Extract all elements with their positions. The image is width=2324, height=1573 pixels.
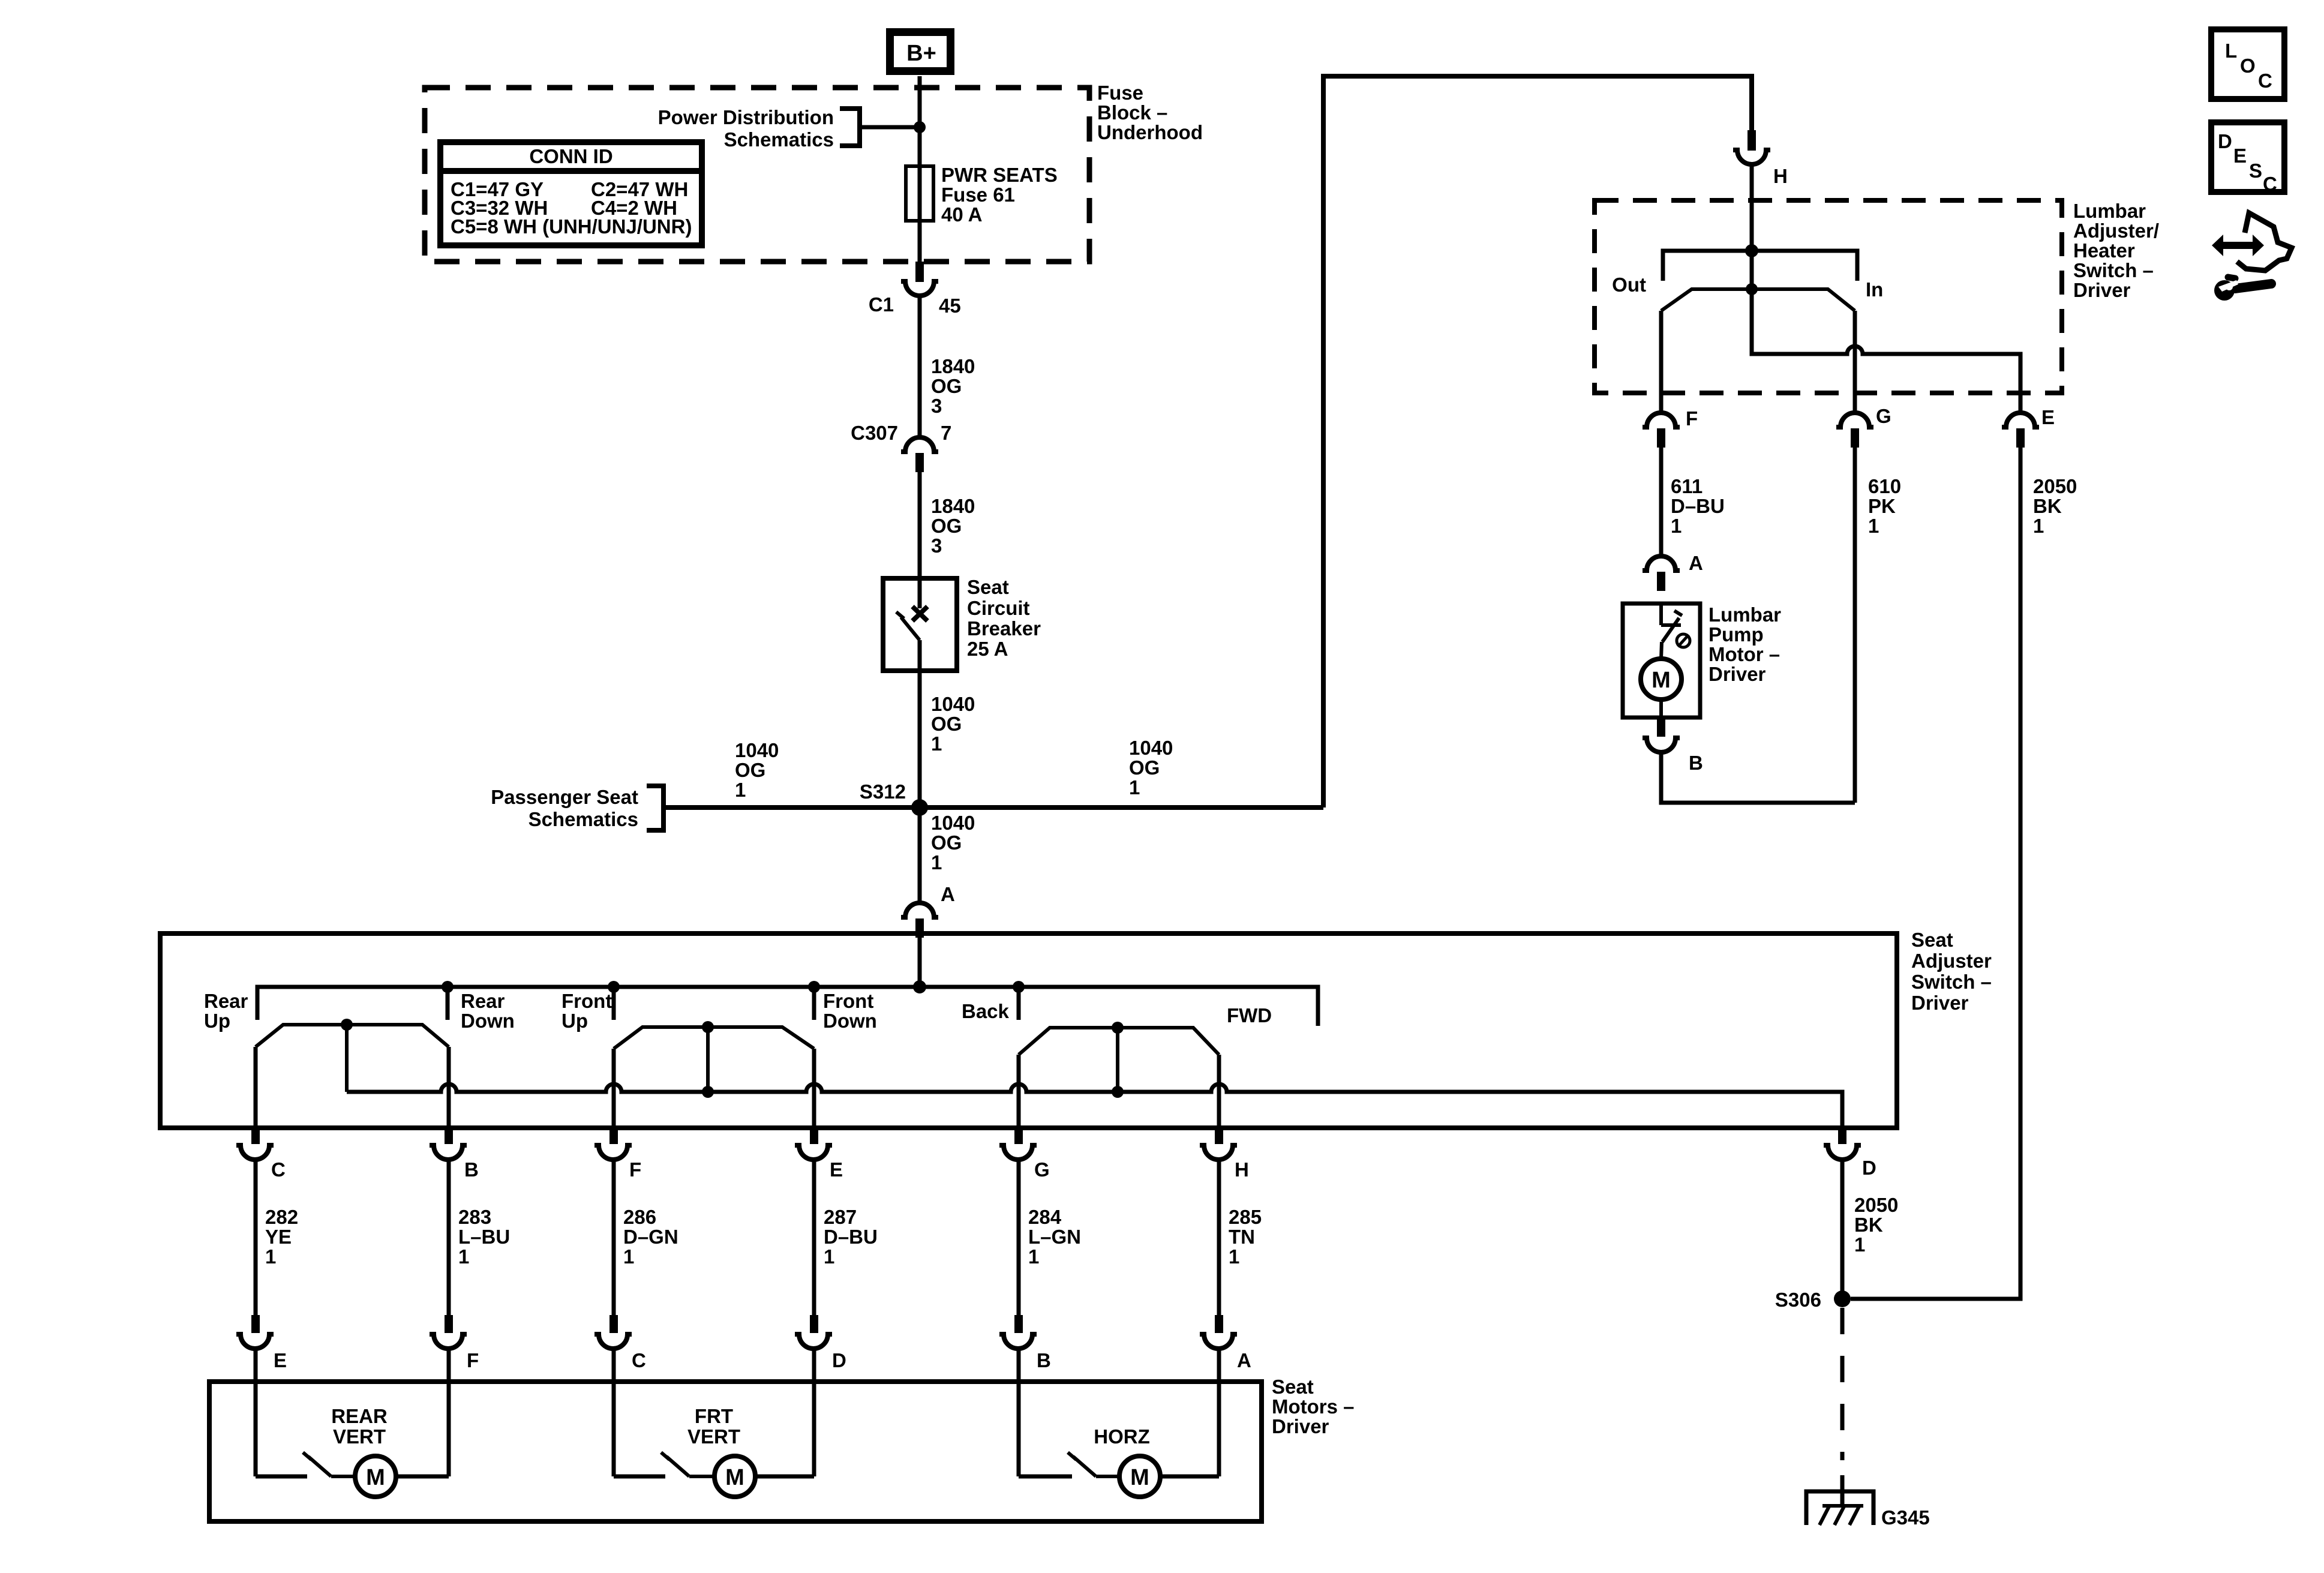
svg-text:Out: Out xyxy=(1612,274,1646,296)
svg-text:L: L xyxy=(2225,40,2237,62)
svg-text:1: 1 xyxy=(1129,776,1140,798)
svg-text:REAR: REAR xyxy=(331,1405,388,1427)
svg-text:TN: TN xyxy=(1229,1226,1255,1248)
svg-text:B: B xyxy=(464,1158,479,1181)
lumbar pump motor internals xyxy=(1641,604,1690,718)
svg-text:OG: OG xyxy=(1129,757,1160,779)
svg-text:282: 282 xyxy=(265,1206,298,1228)
wire into seat motors box xyxy=(812,1349,816,1382)
wire into seat motors box xyxy=(447,1349,451,1382)
wire label 284 L–GN 1 xyxy=(1028,1206,1081,1268)
wire 284 L–GN xyxy=(1017,1160,1021,1315)
svg-text:M: M xyxy=(1652,668,1671,693)
svg-text:C307: C307 xyxy=(851,422,898,444)
wire label 1840 OG 3 xyxy=(931,495,975,557)
fixed contact Front Up xyxy=(608,981,620,1020)
svg-text:Underhood: Underhood xyxy=(1097,121,1203,143)
label Fuse Block - Underhood xyxy=(1097,82,1203,143)
fixed contact Front Down xyxy=(808,981,820,1020)
svg-text:Rear: Rear xyxy=(461,990,505,1012)
wire label 282 YE 1 xyxy=(265,1206,298,1268)
label Lumbar Pump Motor - Driver xyxy=(1709,604,1781,685)
svg-text:Adjuster: Adjuster xyxy=(1911,950,1992,972)
svg-text:H: H xyxy=(1235,1158,1249,1181)
svg-text:CONN ID: CONN ID xyxy=(529,145,612,167)
label Seat Adjuster Switch - Driver xyxy=(1911,929,1992,1014)
svg-text:Schematics: Schematics xyxy=(724,128,834,151)
svg-text:Down: Down xyxy=(823,1010,877,1032)
svg-text:OG: OG xyxy=(931,713,962,735)
svg-text:1040: 1040 xyxy=(1129,737,1173,759)
motor HORZ xyxy=(1019,1382,1219,1497)
node: power distribution schematics tap xyxy=(658,106,926,151)
svg-text:1840: 1840 xyxy=(931,355,975,377)
svg-text:Driver: Driver xyxy=(1709,663,1766,685)
wire lumbar switch center to E with hop xyxy=(1752,289,2020,413)
svg-text:Heater: Heater xyxy=(2073,239,2135,262)
connector F lumbar switch xyxy=(1643,407,1698,448)
svg-text:D: D xyxy=(2218,130,2232,152)
svg-text:B: B xyxy=(1689,752,1703,774)
connector B seat motors xyxy=(999,1315,1051,1371)
svg-text:C5=8 WH (UNH/UNJ/UNR): C5=8 WH (UNH/UNJ/UNR) xyxy=(451,215,692,238)
wire into seat motors box xyxy=(254,1349,258,1382)
connector A seat motors xyxy=(1200,1315,1251,1371)
svg-text:C: C xyxy=(2258,70,2272,92)
svg-text:O: O xyxy=(2240,55,2256,77)
svg-text:Pump: Pump xyxy=(1709,623,1764,646)
svg-text:2050: 2050 xyxy=(1854,1194,1898,1216)
svg-text:Lumbar: Lumbar xyxy=(1709,604,1781,626)
wire up-and-over from S312 to lumbar switch H xyxy=(1323,76,1752,807)
svg-text:1: 1 xyxy=(1229,1245,1239,1268)
wire label 610 PK 1 xyxy=(1868,475,1901,537)
fixed contact Back xyxy=(1013,981,1025,1020)
connector B seat adjuster switch (rear down output) xyxy=(430,1130,479,1181)
svg-text:Block –: Block – xyxy=(1097,101,1167,124)
svg-text:C: C xyxy=(271,1158,286,1181)
svg-text:Schematics: Schematics xyxy=(529,808,638,830)
wire into seat motors box xyxy=(1017,1349,1021,1382)
svg-text:Passenger Seat: Passenger Seat xyxy=(491,786,638,808)
wire lumbar switch to G xyxy=(1853,311,1857,413)
svg-text:Adjuster/: Adjuster/ xyxy=(2073,220,2159,242)
svg-text:1: 1 xyxy=(1854,1233,1865,1256)
svg-text:E: E xyxy=(2041,406,2055,428)
connector G seat adjuster switch (back output) xyxy=(999,1130,1050,1181)
component view icon (arrow, pointer outline, wrench) xyxy=(2212,213,2292,301)
svg-text:40 A: 40 A xyxy=(941,203,982,226)
svg-text:1: 1 xyxy=(623,1245,634,1268)
common contact line with hops to D xyxy=(347,1084,1842,1128)
svg-text:1: 1 xyxy=(1868,515,1879,537)
svg-text:Power Distribution: Power Distribution xyxy=(658,106,834,128)
seat circuit breaker 25 A xyxy=(883,576,1041,671)
svg-text:YE: YE xyxy=(265,1226,292,1248)
svg-text:283: 283 xyxy=(458,1206,491,1228)
svg-text:2050: 2050 xyxy=(2033,475,2077,497)
wire B+ to C1 xyxy=(918,76,922,264)
svg-text:Switch –: Switch – xyxy=(2073,259,2154,281)
svg-text:OG: OG xyxy=(931,515,962,537)
wire C1 to C307 xyxy=(918,296,922,438)
wire C307 to breaker xyxy=(918,472,922,578)
fuse PWR SEATS Fuse 61 40 A xyxy=(906,164,1058,226)
connector D seat adjuster switch xyxy=(1824,1130,1876,1179)
wire S312 down to connector A xyxy=(918,807,922,903)
svg-text:Back: Back xyxy=(962,1000,1010,1022)
svg-text:BK: BK xyxy=(2033,495,2062,517)
connector E seat motors xyxy=(236,1315,287,1371)
svg-text:7: 7 xyxy=(941,422,951,444)
svg-text:Fuse: Fuse xyxy=(1097,82,1143,104)
lumbar switch moving contact xyxy=(1661,251,1855,311)
connector C seat adjuster switch (rear up output) xyxy=(236,1130,286,1181)
wire E down to S306 xyxy=(1851,448,2020,1299)
svg-text:Driver: Driver xyxy=(1272,1415,1329,1437)
connector H lumbar switch xyxy=(1733,130,1788,187)
svg-text:611: 611 xyxy=(1671,475,1703,497)
svg-text:F: F xyxy=(1686,407,1698,430)
svg-text:C: C xyxy=(632,1349,646,1371)
connector G lumbar switch xyxy=(1836,405,1891,448)
wire into seat motors box xyxy=(612,1349,616,1382)
wire label 2050 BK 1 xyxy=(2033,475,2077,537)
wire label 283 L–BU 1 xyxy=(458,1206,510,1268)
lumbar pump motor driver box xyxy=(1623,604,1700,718)
svg-text:PWR SEATS: PWR SEATS xyxy=(941,164,1058,186)
wire 282 YE xyxy=(254,1160,258,1315)
switch position labels xyxy=(204,990,1272,1032)
wire D to S306 xyxy=(1840,1160,1845,1299)
fixed contact Rear Down xyxy=(442,981,454,1020)
svg-text:1040: 1040 xyxy=(931,693,975,715)
svg-text:OG: OG xyxy=(735,759,765,781)
node: bus feed junction xyxy=(913,980,926,993)
svg-text:Lumbar: Lumbar xyxy=(2073,200,2146,222)
wire front vert outputs xyxy=(612,1049,616,1128)
wire label 1840 OG 3 xyxy=(931,355,975,417)
wire label 1040 OG 1 below xyxy=(931,812,975,873)
switch horz moving contact xyxy=(1019,1022,1219,1098)
label Lumbar Adjuster/Heater Switch - Driver xyxy=(2073,200,2159,301)
svg-text:D–BU: D–BU xyxy=(1671,495,1725,517)
svg-text:25 A: 25 A xyxy=(967,638,1008,660)
lumbar adjuster heater switch dashed box xyxy=(1595,200,2062,393)
lumbar switch fixed contacts Out / In xyxy=(1612,251,1883,301)
svg-text:FWD: FWD xyxy=(1227,1004,1272,1026)
svg-text:S306: S306 xyxy=(1775,1289,1821,1311)
connector D seat motors xyxy=(795,1315,846,1371)
svg-text:3: 3 xyxy=(931,395,942,417)
motor REAR VERT xyxy=(256,1382,449,1497)
svg-text:1: 1 xyxy=(1671,515,1682,537)
connector C307 pin 7 xyxy=(851,422,951,472)
wire label 1040 OG 1 left xyxy=(735,739,779,801)
wire rear vert outputs xyxy=(254,1047,258,1128)
svg-text:B+: B+ xyxy=(906,41,936,66)
wire B loop to G xyxy=(1661,752,1855,803)
svg-text:Switch –: Switch – xyxy=(1911,971,1992,993)
wire label 1040 OG 1 xyxy=(931,693,975,755)
svg-text:M: M xyxy=(366,1465,385,1490)
svg-text:OG: OG xyxy=(931,831,962,854)
svg-text:1040: 1040 xyxy=(931,812,975,834)
svg-text:D: D xyxy=(832,1349,846,1371)
connector F seat adjuster switch (front up output) xyxy=(594,1130,641,1181)
svg-text:Front: Front xyxy=(823,990,873,1012)
svg-text:1: 1 xyxy=(735,779,746,801)
svg-text:1: 1 xyxy=(931,733,942,755)
svg-text:Up: Up xyxy=(562,1010,588,1032)
svg-text:Circuit: Circuit xyxy=(967,597,1030,619)
svg-text:Fuse 61: Fuse 61 xyxy=(941,184,1015,206)
wire label 2050 BK 1 xyxy=(1854,1194,1898,1256)
wire H into lumbar switch xyxy=(1750,164,1754,251)
svg-text:Front: Front xyxy=(562,990,612,1012)
svg-text:1: 1 xyxy=(824,1245,834,1268)
svg-text:G: G xyxy=(1876,405,1891,427)
wire 285 TN xyxy=(1217,1160,1221,1315)
svg-text:Down: Down xyxy=(461,1010,515,1032)
wire S312 horizontal xyxy=(663,805,1323,810)
switch front vert moving contact xyxy=(614,1021,814,1098)
svg-text:Driver: Driver xyxy=(1911,992,1969,1014)
svg-text:E: E xyxy=(2233,145,2247,167)
svg-text:M: M xyxy=(725,1465,744,1490)
wire F to lumbar pump A xyxy=(1659,448,1664,557)
svg-text:1: 1 xyxy=(458,1245,469,1268)
svg-text:C: C xyxy=(2263,173,2277,195)
svg-text:D: D xyxy=(1862,1157,1876,1179)
svg-text:E: E xyxy=(830,1158,843,1181)
svg-text:L–BU: L–BU xyxy=(458,1226,510,1248)
svg-text:S: S xyxy=(2249,160,2262,182)
svg-text:Up: Up xyxy=(204,1010,230,1032)
svg-text:3: 3 xyxy=(931,535,942,557)
svg-text:VERT: VERT xyxy=(687,1425,740,1448)
svg-text:H: H xyxy=(1773,165,1788,187)
connector B lumbar pump motor xyxy=(1643,718,1703,774)
svg-text:D–BU: D–BU xyxy=(824,1226,878,1248)
connector A lumbar pump motor xyxy=(1643,552,1703,591)
svg-text:1040: 1040 xyxy=(735,739,779,761)
svg-text:D–GN: D–GN xyxy=(623,1226,678,1248)
splice S306 xyxy=(1775,1289,1851,1311)
svg-text:E: E xyxy=(274,1349,287,1371)
svg-text:Rear: Rear xyxy=(204,990,248,1012)
svg-text:L–GN: L–GN xyxy=(1028,1226,1081,1248)
svg-text:FRT: FRT xyxy=(695,1405,733,1427)
motor FRT VERT xyxy=(614,1382,814,1497)
node: lumbar feed junction xyxy=(1745,244,1758,257)
seat motors driver box xyxy=(209,1382,1262,1521)
svg-text:610: 610 xyxy=(1868,475,1901,497)
splice S312 xyxy=(860,781,928,816)
svg-text:OG: OG xyxy=(931,375,962,397)
svg-text:1: 1 xyxy=(931,851,942,873)
wire breaker to S312 xyxy=(918,640,922,807)
svg-text:Motors –: Motors – xyxy=(1272,1395,1355,1418)
svg-text:1: 1 xyxy=(1028,1245,1039,1268)
wire 286 D–GN xyxy=(612,1160,616,1315)
svg-text:VERT: VERT xyxy=(333,1425,386,1448)
switch bus xyxy=(257,987,1318,1026)
wire lumbar switch to F xyxy=(1659,311,1664,413)
seat adjuster switch driver box xyxy=(160,933,1897,1128)
wire 287 D–BU xyxy=(812,1160,816,1315)
B+ power symbol xyxy=(890,32,951,71)
svg-text:B: B xyxy=(1037,1349,1051,1371)
connector C seat motors xyxy=(594,1315,646,1371)
svg-text:Seat: Seat xyxy=(1272,1376,1314,1398)
wire label 287 D–BU 1 xyxy=(824,1206,878,1268)
DESC corner box xyxy=(2211,122,2284,195)
svg-text:S312: S312 xyxy=(860,781,906,803)
wire into seat motors box xyxy=(1217,1349,1221,1382)
svg-text:A: A xyxy=(941,883,955,905)
wire horz outputs xyxy=(1017,1055,1021,1128)
wire G down xyxy=(1853,448,1857,803)
svg-text:C1: C1 xyxy=(869,293,894,316)
connector F seat motors xyxy=(430,1315,479,1371)
connector E lumbar switch xyxy=(2002,406,2055,448)
svg-text:BK: BK xyxy=(1854,1214,1883,1236)
wire label 285 TN 1 xyxy=(1229,1206,1262,1268)
svg-text:G345: G345 xyxy=(1881,1506,1930,1529)
connector E seat adjuster switch (front down output) xyxy=(795,1130,843,1181)
wire label 286 D–GN 1 xyxy=(623,1206,678,1268)
svg-text:F: F xyxy=(467,1349,479,1371)
wire label 611 D-BU 1 xyxy=(1671,475,1725,537)
svg-text:G: G xyxy=(1034,1158,1050,1181)
connector H seat adjuster switch (fwd output) xyxy=(1200,1130,1249,1181)
svg-text:In: In xyxy=(1866,278,1883,301)
svg-text:Motor –: Motor – xyxy=(1709,643,1780,665)
svg-text:1: 1 xyxy=(2033,515,2044,537)
wire feed into switch bus xyxy=(918,937,922,987)
node: passenger seat schematics tap xyxy=(491,786,663,830)
svg-text:1840: 1840 xyxy=(931,495,975,517)
ground G345 xyxy=(1806,1475,1930,1529)
svg-text:HORZ: HORZ xyxy=(1094,1425,1150,1448)
connector C1 pin 45 xyxy=(869,262,961,317)
svg-text:1: 1 xyxy=(265,1245,276,1268)
svg-text:A: A xyxy=(1689,552,1703,574)
svg-text:M: M xyxy=(1130,1465,1149,1490)
svg-text:A: A xyxy=(1237,1349,1251,1371)
svg-text:285: 285 xyxy=(1229,1206,1262,1228)
fuse block underhood dashed box xyxy=(425,88,1089,262)
svg-text:Seat: Seat xyxy=(967,576,1009,598)
svg-text:284: 284 xyxy=(1028,1206,1062,1228)
connector A seat adjuster switch xyxy=(901,883,955,938)
svg-text:Driver: Driver xyxy=(2073,279,2131,301)
dashed wire S306 to ground xyxy=(1840,1308,1845,1460)
switch rear vert moving contact xyxy=(256,1019,449,1092)
label Seat Motors - Driver xyxy=(1272,1376,1355,1437)
wire 283 L–BU xyxy=(447,1160,451,1315)
wire label 1040 OG 1 right xyxy=(1129,737,1173,798)
svg-text:287: 287 xyxy=(824,1206,857,1228)
svg-text:PK: PK xyxy=(1868,495,1896,517)
svg-text:F: F xyxy=(629,1158,641,1181)
svg-text:45: 45 xyxy=(939,295,961,317)
CONN ID table xyxy=(440,142,702,245)
LOC corner box xyxy=(2211,29,2284,99)
svg-text:286: 286 xyxy=(623,1206,656,1228)
svg-text:Seat: Seat xyxy=(1911,929,1953,951)
svg-text:Breaker: Breaker xyxy=(967,617,1041,640)
